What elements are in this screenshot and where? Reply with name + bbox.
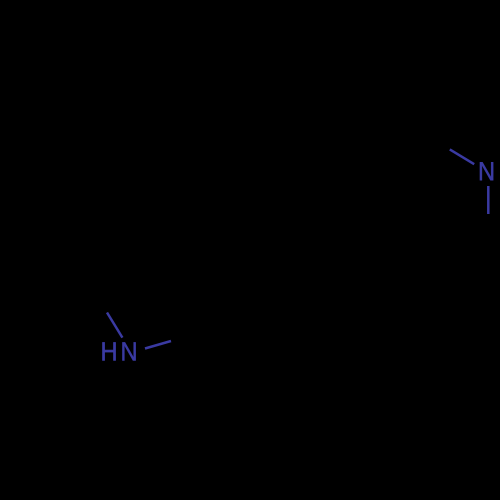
amine N half bond right [145, 341, 171, 349]
invisible carbon skeleton (black on black) [84, 126, 488, 349]
amine N half bond up-left [107, 313, 122, 338]
HN label: N glyph [122, 342, 135, 360]
HN label: H glyph [102, 342, 115, 360]
pyridine N label [480, 162, 493, 180]
pyridine N half bond down [487, 186, 490, 214]
pyridine N half bond up-left [450, 149, 474, 164]
